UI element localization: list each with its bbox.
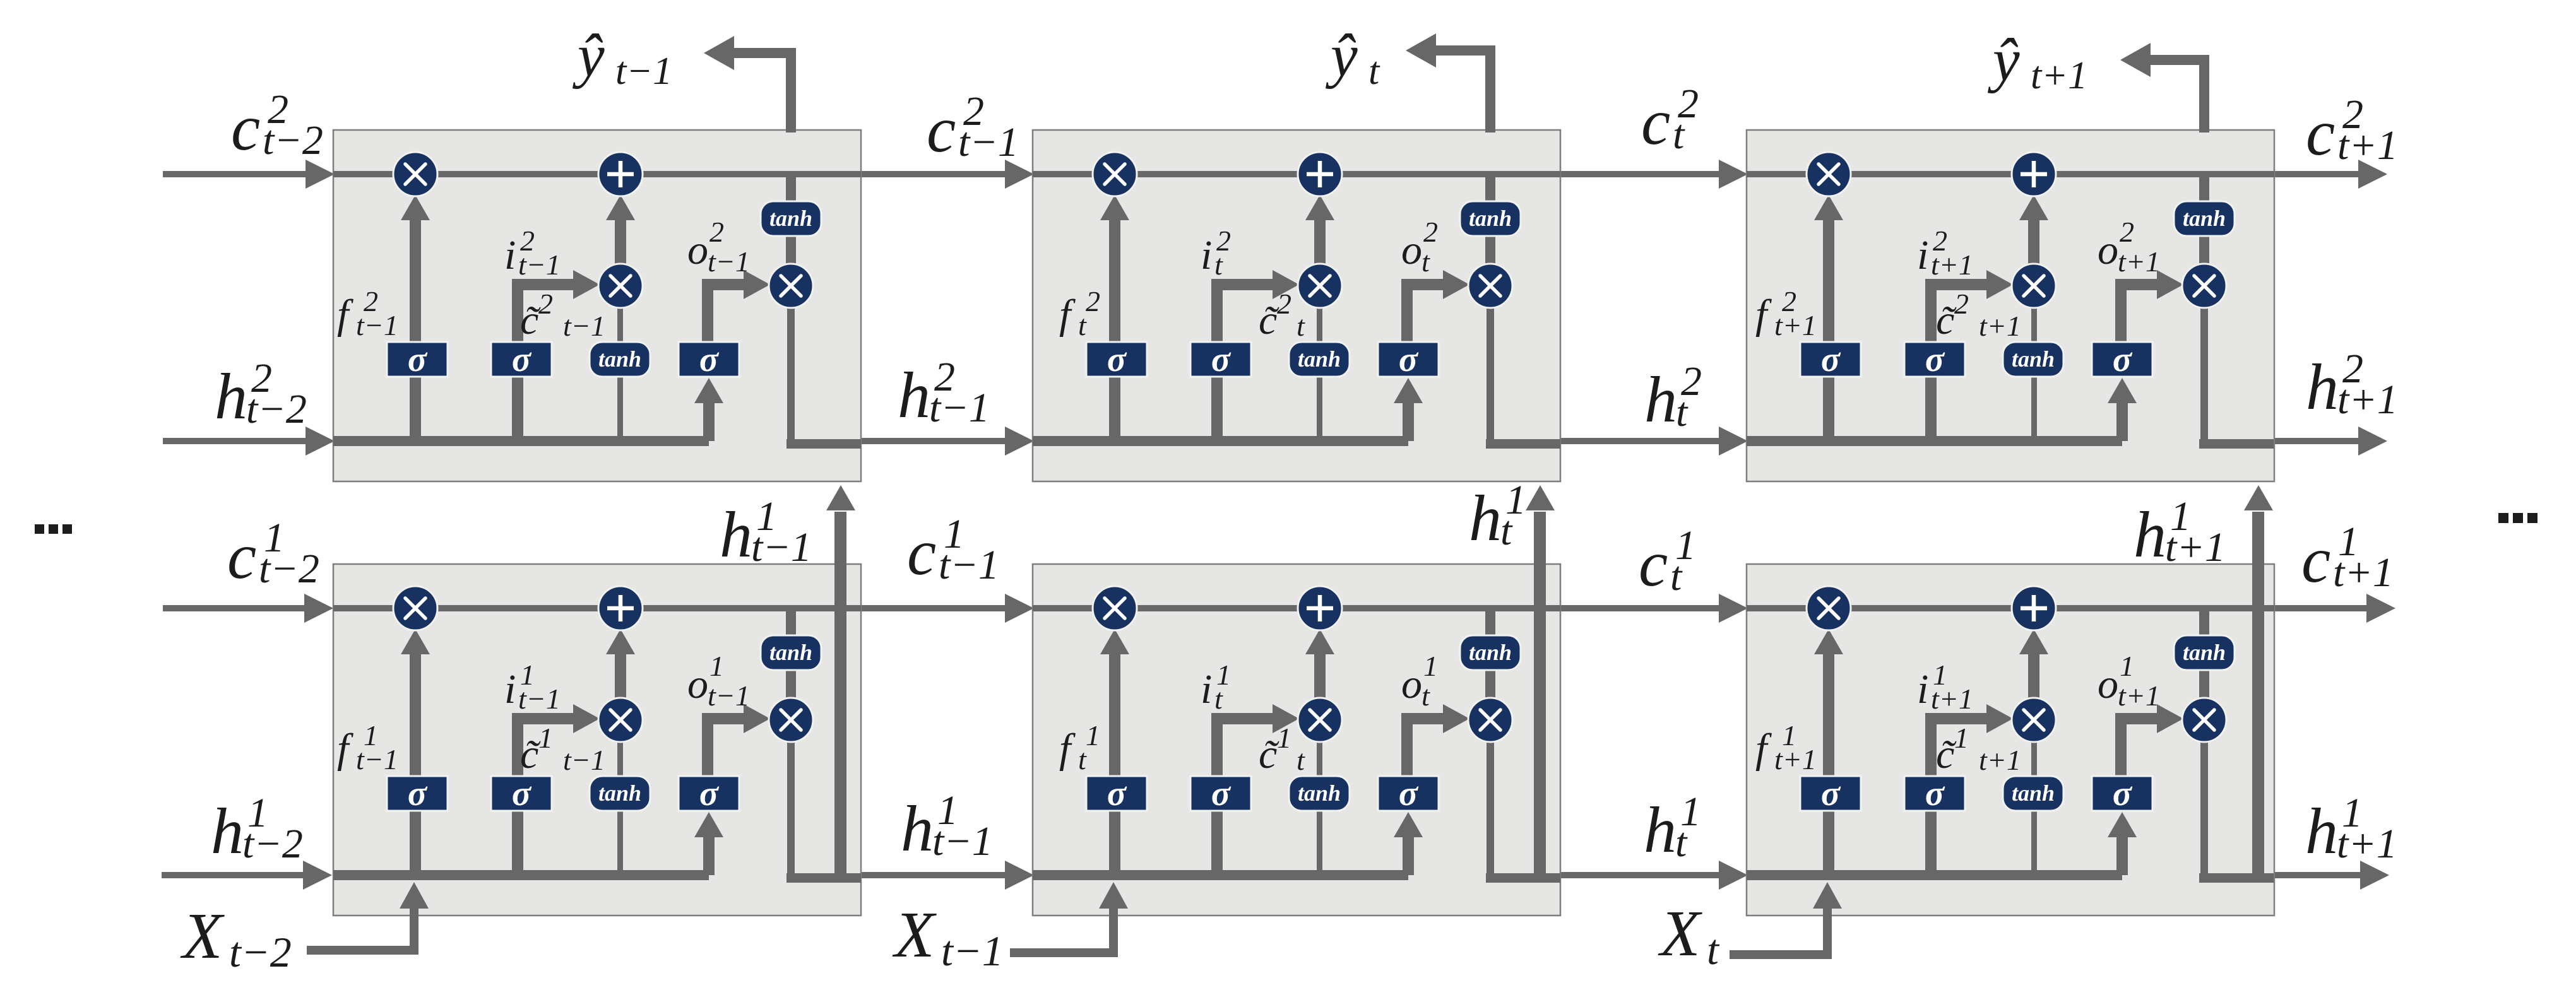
svg-text:tanh: tanh	[2012, 780, 2055, 806]
label: o gate (layer 1, step t)	[1401, 650, 1438, 712]
label: f gate (layer 1, step t)	[1059, 719, 1100, 775]
label: i gate (layer 2, step t)	[1201, 225, 1231, 281]
wire: h2 hidden arrow between cells (top row, t−1)	[860, 427, 1034, 456]
svg-text:t: t	[1500, 508, 1513, 554]
wire: hidden-state input line h (layer 2, step t+1)	[1747, 436, 2122, 446]
op: add on c line (layer 2, step t)	[1298, 152, 1342, 196]
svg-text:t+1: t+1	[2165, 524, 2226, 570]
svg-text:t: t	[1670, 553, 1683, 599]
wire: hidden-state riser h1 to layer 2 (step t+1)	[2244, 485, 2273, 878]
label: o gate (layer 1, step t−1)	[687, 650, 750, 712]
op: forget multiply on c line (layer 2, step t+1)	[1807, 152, 1851, 196]
svg-text:t−1: t−1	[563, 744, 605, 776]
wire: cell-state line c through cell (layer 1, step t−1)	[333, 605, 861, 611]
svg-text:tanh: tanh	[1298, 780, 1341, 806]
wire: c-state branch through tanh to mult3 (layer 1, step t−1)	[786, 608, 796, 700]
svg-text:σ: σ	[2113, 340, 2133, 379]
wire: output-gate input arrow from h line (layer 1, step t)	[1394, 812, 1423, 875]
label: ellipsis right	[2498, 513, 2537, 523]
op: add on c line (layer 2, step t−1)	[598, 152, 643, 196]
svg-text:t: t	[1214, 683, 1223, 715]
label: o gate (layer 2, step t+1)	[2098, 216, 2160, 278]
svg-text:tanh: tanh	[769, 206, 812, 231]
svg-text:2: 2	[2120, 216, 2134, 248]
label: h1 t (between bottom cells)	[1644, 789, 1701, 866]
label: o gate (layer 2, step t)	[1401, 216, 1438, 278]
op: input multiply (layer 2, step t+1)	[2012, 264, 2056, 308]
svg-text:tanh: tanh	[2183, 640, 2226, 665]
label: input X t-1	[892, 898, 1004, 975]
svg-text:t: t	[1675, 820, 1688, 866]
svg-text:1: 1	[1277, 722, 1291, 754]
svg-text:t−1: t−1	[939, 542, 999, 588]
label: c-tilde candidate (layer 2, step t+1)	[1936, 288, 2021, 343]
label: f gate (layer 1, step t+1)	[1755, 719, 1817, 775]
wire: output-gate input arrow from h line (layer 2, step t)	[1394, 378, 1423, 441]
svg-text:o: o	[687, 227, 708, 273]
svg-text:t−1: t−1	[518, 249, 561, 281]
gate: tanh box (candidate) (layer 2, step t+1)	[2003, 342, 2063, 377]
wire: hidden-state input line h (layer 1, step t+1)	[1747, 870, 2122, 880]
svg-text:σ: σ	[512, 774, 532, 813]
op: input multiply (layer 1, step t−1)	[598, 698, 643, 742]
gate: sigma box (forget) (layer 2, step t−1)	[387, 340, 448, 379]
svg-text:ŷ: ŷ	[1325, 21, 1358, 89]
svg-text:i: i	[504, 666, 516, 712]
wire: candidate path c-tilde through tanh (layer 2, step t−1)	[617, 305, 623, 441]
gate: tanh box (candidate) (layer 2, step t−1)	[590, 342, 650, 377]
gate: sigma box (output) (layer 2, step t−1)	[679, 340, 739, 379]
label: c-tilde candidate (layer 2, step t)	[1259, 288, 1305, 343]
wire: output-gate path o into mult3 (layer 2, step t+1)	[2115, 270, 2183, 344]
wire: output-gate input arrow from h line (layer 1, step t+1)	[2108, 812, 2137, 875]
label: y-hat t+1 output	[1987, 26, 2087, 97]
label: i gate (layer 2, step t−1)	[504, 225, 561, 281]
svg-text:σ: σ	[1211, 340, 1232, 379]
gate: sigma box (forget) (layer 2, step t+1)	[1800, 340, 1861, 379]
wire: c-state branch through tanh to mult3 (layer 1, step t)	[1485, 608, 1495, 700]
label: f gate (layer 2, step t)	[1059, 285, 1100, 341]
svg-text:σ: σ	[408, 340, 428, 379]
label: c1 t+1 (right)	[2301, 519, 2394, 596]
label: c2 t-1 (between top cells)	[927, 88, 1019, 166]
wire: candidate path c-tilde through tanh (layer 1, step t−1)	[617, 739, 623, 875]
label: f gate (layer 1, step t−1)	[337, 719, 398, 775]
LSTM cell block (layer 2, step t+1)	[1747, 130, 2274, 481]
label: h2 t (between top cells)	[1644, 358, 1702, 436]
svg-text:t+1: t+1	[2031, 54, 2087, 97]
wire: input-gate path i (layer 2, step t−1)	[512, 270, 600, 441]
svg-text:t: t	[1297, 744, 1305, 776]
gate: tanh pill on c branch (layer 2, step t−1)	[761, 201, 821, 236]
svg-text:t: t	[1214, 249, 1223, 281]
svg-text:c: c	[2306, 97, 2335, 169]
svg-text:t: t	[1422, 680, 1430, 712]
svg-text:t−1: t−1	[932, 818, 993, 864]
svg-text:t+1: t+1	[1979, 744, 2021, 776]
svg-text:σ: σ	[1107, 774, 1127, 813]
svg-text:σ: σ	[1211, 774, 1232, 813]
svg-text:t+1: t+1	[1774, 743, 1817, 775]
svg-text:c: c	[2301, 524, 2330, 596]
label: c2 t-2 (left)	[231, 86, 323, 164]
label: h1 t+1 (right)	[2305, 790, 2397, 868]
svg-text:i: i	[1917, 666, 1928, 712]
gate: tanh box (candidate) (layer 1, step t+1)	[2003, 776, 2063, 811]
gate: sigma box (forget) (layer 1, step t)	[1086, 774, 1147, 813]
wire: c2 state arrow between cells (top row, t−1)	[860, 160, 1034, 189]
wire: cell-state line c through cell (layer 1, step t+1)	[1747, 605, 2274, 611]
svg-text:t−2: t−2	[246, 386, 307, 432]
svg-text:h: h	[1644, 794, 1677, 866]
svg-text:h: h	[1644, 363, 1677, 436]
wire: h1 hidden arrow between cells (bottom row, t)	[1559, 861, 1748, 890]
svg-text:c: c	[1639, 527, 1668, 600]
svg-text:c: c	[907, 516, 936, 589]
svg-text:h: h	[898, 359, 930, 432]
label: input X t	[1658, 897, 1720, 974]
wire: cell-state line c through cell (layer 2, step t+1)	[1747, 171, 2274, 177]
wire: c-state branch through tanh to mult3 (layer 2, step t+1)	[2199, 174, 2209, 266]
LSTM cell block (layer 2, step t−1)	[333, 130, 861, 481]
svg-text:o: o	[2098, 227, 2118, 273]
svg-text:t−1: t−1	[708, 245, 750, 278]
wire: mult3 output down to h line (layer 2, step t)	[1487, 305, 1494, 444]
wire: hidden-state output segment (layer 2, step t+1)	[2199, 439, 2274, 449]
svg-text:1: 1	[1086, 719, 1100, 751]
wire: h1 hidden output arrow to the right	[2273, 861, 2389, 890]
wire: c-state branch through tanh to mult3 (layer 2, step t−1)	[786, 174, 796, 266]
svg-text:2: 2	[709, 216, 724, 248]
svg-text:tanh: tanh	[1469, 206, 1512, 231]
label: h2 t-2 (left)	[215, 355, 307, 433]
label: h1 t riser label	[1469, 477, 1526, 555]
LSTM cell block (layer 2, step t)	[1033, 130, 1560, 481]
svg-text:tanh: tanh	[598, 780, 641, 806]
svg-text:t: t	[1078, 309, 1087, 341]
gate: sigma box (output) (layer 2, step t)	[1378, 340, 1439, 379]
wire: y-hat output arrow (step t−1)	[704, 36, 796, 132]
svg-text:t+1: t+1	[2118, 680, 2160, 712]
wire: mult3 output down to h line (layer 1, step t+1)	[2200, 739, 2208, 878]
svg-text:i: i	[1201, 232, 1212, 278]
wire: hidden-state output segment (layer 1, step t−1)	[786, 873, 861, 883]
gate: sigma box (input) (layer 2, step t)	[1190, 340, 1251, 379]
svg-text:2: 2	[538, 288, 553, 320]
op: forget multiply on c line (layer 2, step t)	[1093, 152, 1137, 196]
label: o gate (layer 1, step t+1)	[2098, 650, 2160, 712]
svg-text:t−2: t−2	[263, 117, 323, 163]
label: c1 t-1 (between bottom cells)	[907, 511, 999, 589]
wire: input-gate path i (layer 1, step t+1)	[1925, 704, 2013, 875]
wire: output-gate path o into mult3 (layer 1, step t−1)	[702, 704, 770, 779]
wire: input-gate path i (layer 1, step t)	[1211, 704, 1299, 875]
svg-text:h: h	[2134, 498, 2166, 571]
wire: c1 state output arrow to the right	[2273, 594, 2395, 623]
svg-text:σ: σ	[408, 774, 428, 813]
svg-text:1: 1	[1954, 722, 1969, 754]
wire: arrow mult2 to add (layer 2, step t+1)	[2019, 195, 2048, 265]
gate: tanh pill on c branch (layer 2, step t+1)	[2174, 201, 2235, 236]
svg-text:1: 1	[1423, 650, 1438, 682]
op: output multiply (layer 1, step t−1)	[769, 698, 813, 742]
svg-text:i: i	[1201, 666, 1212, 712]
label: c-tilde candidate (layer 2, step t−1)	[520, 288, 605, 343]
wire: y-hat output arrow (step t+1)	[2120, 43, 2209, 132]
wire: hidden-state output segment (layer 1, step t+1)	[2199, 873, 2274, 883]
svg-text:σ: σ	[699, 340, 720, 379]
gate: sigma box (input) (layer 1, step t+1)	[1904, 774, 1965, 813]
svg-text:t+1: t+1	[1931, 249, 1973, 281]
op: output multiply (layer 2, step t−1)	[769, 264, 813, 308]
wire: c1 state arrow between cells (bottom row, t)	[1559, 594, 1748, 623]
gate: sigma box (input) (layer 1, step t−1)	[491, 774, 552, 813]
gate: sigma box (output) (layer 1, step t)	[1378, 774, 1439, 813]
svg-text:i: i	[1917, 232, 1928, 278]
svg-text:t−1: t−1	[563, 310, 605, 342]
wire: candidate path c-tilde through tanh (layer 2, step t+1)	[2031, 305, 2037, 441]
svg-text:t−1: t−1	[356, 743, 398, 775]
svg-text:X: X	[180, 900, 225, 972]
op: output multiply (layer 2, step t)	[1468, 264, 1512, 308]
svg-text:tanh: tanh	[1298, 346, 1341, 372]
svg-text:1: 1	[2120, 650, 2134, 682]
gate: sigma box (output) (layer 1, step t−1)	[679, 774, 739, 813]
op: forget multiply on c line (layer 1, step t+1)	[1807, 586, 1851, 630]
wire: mult3 output down to h line (layer 1, step t−1)	[787, 739, 795, 878]
wire: c-state branch through tanh to mult3 (layer 2, step t)	[1485, 174, 1495, 266]
wire: input X (step t)	[1010, 882, 1128, 957]
svg-text:t+1: t+1	[1931, 683, 1973, 715]
op: forget multiply on c line (layer 2, step t−1)	[393, 152, 437, 196]
wire: mult3 output down to h line (layer 2, step t+1)	[2200, 305, 2208, 444]
gate: tanh pill on c branch (layer 1, step t)	[1460, 635, 1521, 670]
svg-text:t−1: t−1	[615, 50, 672, 93]
wire: mult3 output down to h line (layer 2, step t−1)	[787, 305, 795, 444]
wire: cell-state line c through cell (layer 1, step t)	[1033, 605, 1560, 611]
wire: forget-gate arrow f (layer 1, step t)	[1100, 629, 1129, 875]
svg-text:c: c	[927, 93, 956, 166]
wire: arrow mult2 to add (layer 1, step t+1)	[2019, 629, 2048, 699]
svg-text:h: h	[215, 360, 247, 433]
label: input X t-2	[180, 900, 292, 976]
svg-text:t−1: t−1	[751, 524, 812, 570]
svg-text:h: h	[2305, 795, 2338, 868]
svg-text:1: 1	[709, 650, 724, 682]
wire: cell-state line c through cell (layer 2, step t−1)	[333, 171, 861, 177]
svg-text:2: 2	[1423, 216, 1438, 248]
gate: tanh box (candidate) (layer 1, step t−1)	[590, 776, 650, 811]
wire: arrow mult2 to add (layer 2, step t−1)	[606, 195, 635, 265]
wire: c1 state arrow between cells (bottom row, t−1)	[860, 594, 1034, 623]
gate: sigma box (input) (layer 2, step t+1)	[1904, 340, 1965, 379]
gate: sigma box (input) (layer 1, step t)	[1190, 774, 1251, 813]
label: h1 t-1 riser label	[720, 493, 812, 571]
wire: candidate path c-tilde through tanh (layer 2, step t)	[1317, 305, 1322, 441]
svg-text:σ: σ	[1821, 774, 1841, 813]
label: h1 t-1 (between bottom cells)	[901, 787, 993, 865]
svg-text:σ: σ	[1399, 340, 1419, 379]
svg-text:σ: σ	[2113, 774, 2133, 813]
wire: hidden-state input line h (layer 2, step t)	[1033, 436, 1408, 446]
op: input multiply (layer 1, step t+1)	[2012, 698, 2056, 742]
wire: c2 state input arrow from left	[163, 160, 335, 189]
wire: y-hat output arrow (step t)	[1406, 33, 1495, 132]
wire: output-gate path o into mult3 (layer 2, step t)	[1401, 270, 1469, 344]
svg-text:c: c	[227, 520, 256, 592]
gate: tanh box (candidate) (layer 2, step t)	[1289, 342, 1350, 377]
svg-text:t−1: t−1	[958, 119, 1019, 165]
wire: hidden-state input line h (layer 2, step t−1)	[333, 436, 709, 446]
wire: c2 state output arrow to the right	[2273, 160, 2387, 189]
wire: hidden-state output segment (layer 2, step t−1)	[786, 439, 861, 449]
svg-text:σ: σ	[699, 774, 720, 813]
LSTM cell block (layer 1, step t)	[1033, 564, 1560, 916]
wire: output-gate path o into mult3 (layer 1, step t+1)	[2115, 704, 2183, 779]
label: o gate (layer 2, step t−1)	[687, 216, 750, 278]
wire: input X (step t−1)	[307, 882, 429, 955]
wire: h2 hidden input arrow from left	[163, 427, 335, 456]
LSTM cell block (layer 1, step t+1)	[1747, 564, 2274, 916]
wire: hidden-state output segment (layer 1, step t)	[1486, 873, 1560, 883]
svg-text:t: t	[1707, 926, 1720, 974]
wire: input-gate path i (layer 2, step t)	[1211, 270, 1299, 441]
gate: sigma box (forget) (layer 2, step t)	[1086, 340, 1147, 379]
op: output multiply (layer 1, step t)	[1468, 698, 1512, 742]
svg-text:t+1: t+1	[2333, 550, 2394, 596]
wire: hidden-state input line h (layer 1, step t)	[1033, 870, 1408, 880]
svg-text:h: h	[2306, 351, 2339, 423]
svg-text:t: t	[1297, 310, 1305, 342]
svg-text:X: X	[1658, 897, 1702, 970]
svg-text:t: t	[1422, 245, 1430, 278]
gate: tanh pill on c branch (layer 1, step t−1)	[761, 635, 821, 670]
label: c-tilde candidate (layer 1, step t)	[1259, 722, 1305, 777]
svg-text:t−1: t−1	[518, 683, 561, 715]
label: h2 t-1 (between top cells)	[898, 354, 990, 432]
op: input multiply (layer 2, step t−1)	[598, 264, 643, 308]
gate: tanh pill on c branch (layer 2, step t)	[1460, 201, 1521, 236]
svg-text:t−1: t−1	[941, 927, 1004, 975]
wire: cell-state line c through cell (layer 2, step t)	[1033, 171, 1560, 177]
wire: arrow mult2 to add (layer 1, step t)	[1305, 629, 1334, 699]
wire: hidden-state input line h (layer 1, step t−1)	[333, 870, 709, 880]
wire: output-gate input arrow from h line (layer 1, step t−1)	[694, 812, 723, 875]
label: h1 t+1 riser label	[2134, 493, 2226, 571]
svg-text:σ: σ	[1399, 774, 1419, 813]
svg-text:X: X	[892, 898, 937, 971]
svg-text:t−1: t−1	[356, 309, 398, 341]
wire: mult3 output down to h line (layer 1, step t)	[1487, 739, 1494, 878]
label: ellipsis left	[35, 524, 72, 534]
svg-text:i: i	[504, 232, 516, 278]
svg-text:σ: σ	[1925, 774, 1945, 813]
svg-text:t: t	[1368, 50, 1380, 93]
svg-text:t−2: t−2	[259, 546, 319, 592]
gate: sigma box (forget) (layer 1, step t−1)	[387, 774, 448, 813]
svg-text:t+1: t+1	[1774, 309, 1817, 341]
wire: candidate path c-tilde through tanh (layer 1, step t+1)	[2031, 739, 2037, 875]
wire: hidden-state riser h1 to layer 2 (step t−1)	[826, 485, 855, 878]
wire: h1 hidden arrow between cells (bottom row, t−1)	[860, 861, 1034, 890]
wire: c1 state input arrow from left	[163, 594, 333, 623]
svg-text:h: h	[720, 498, 752, 571]
op: add on c line (layer 1, step t)	[1298, 586, 1342, 630]
svg-text:c: c	[231, 91, 260, 164]
svg-text:h: h	[901, 792, 934, 865]
svg-text:σ: σ	[1107, 340, 1127, 379]
svg-text:t+1: t+1	[2337, 377, 2398, 423]
svg-text:2: 2	[1954, 288, 1969, 320]
op: input multiply (layer 2, step t)	[1298, 264, 1342, 308]
label: c2 t+1 (right)	[2306, 91, 2398, 169]
svg-text:σ: σ	[1925, 340, 1945, 379]
svg-text:2: 2	[1277, 288, 1291, 320]
gate: sigma box (output) (layer 2, step t+1)	[2092, 340, 2152, 379]
svg-text:o: o	[687, 661, 708, 707]
wire: hidden-state output segment (layer 2, step t)	[1486, 439, 1560, 449]
label: f gate (layer 2, step t+1)	[1755, 285, 1817, 341]
svg-text:t−1: t−1	[929, 385, 990, 431]
svg-text:t−2: t−2	[242, 821, 303, 867]
svg-text:t: t	[1673, 112, 1685, 158]
gate: sigma box (output) (layer 1, step t+1)	[2092, 774, 2152, 813]
svg-text:t−1: t−1	[708, 680, 750, 712]
wire: arrow mult2 to add (layer 2, step t)	[1305, 195, 1334, 265]
op: input multiply (layer 1, step t)	[1298, 698, 1342, 742]
svg-text:c: c	[1641, 86, 1670, 158]
label: i gate (layer 2, step t+1)	[1917, 225, 1973, 281]
label: h1 t-2 (left)	[211, 790, 303, 868]
svg-text:tanh: tanh	[2183, 206, 2226, 231]
wire: output-gate input arrow from h line (layer 2, step t−1)	[694, 378, 723, 441]
wire: input X (step t+1)	[1730, 882, 1842, 959]
svg-text:t+1: t+1	[2118, 245, 2160, 278]
label: f gate (layer 2, step t−1)	[337, 285, 398, 341]
wire: h1 hidden input arrow from left	[162, 861, 332, 890]
wire: h2 hidden output arrow to the right	[2273, 427, 2387, 456]
wire: output-gate input arrow from h line (layer 2, step t+1)	[2108, 378, 2137, 441]
wire: c2 state arrow between cells (top row, t)	[1559, 160, 1748, 189]
wire: hidden-state riser h1 to layer 2 (step t)	[1526, 485, 1555, 878]
gate: tanh pill on c branch (layer 1, step t+1)	[2174, 635, 2235, 670]
wire: output-gate path o into mult3 (layer 1, step t)	[1401, 704, 1469, 779]
svg-text:1: 1	[538, 722, 553, 754]
wire: forget-gate arrow f (layer 1, step t−1)	[401, 629, 430, 875]
gate: sigma box (forget) (layer 1, step t+1)	[1800, 774, 1861, 813]
wire: candidate path c-tilde through tanh (layer 1, step t)	[1317, 739, 1322, 875]
svg-text:tanh: tanh	[769, 640, 812, 665]
svg-text:tanh: tanh	[2012, 346, 2055, 372]
wire: input-gate path i (layer 2, step t+1)	[1925, 270, 2013, 441]
svg-text:t−2: t−2	[229, 928, 292, 976]
svg-text:h: h	[1469, 482, 1502, 555]
svg-text:t+1: t+1	[1979, 310, 2021, 342]
svg-text:t: t	[1676, 389, 1689, 435]
label: i gate (layer 1, step t−1)	[504, 659, 561, 715]
svg-text:ŷ: ŷ	[1987, 26, 2020, 93]
label: y-hat t-1 output	[572, 21, 672, 93]
svg-text:t+1: t+1	[2337, 821, 2397, 867]
op: add on c line (layer 2, step t+1)	[2012, 152, 2056, 196]
label: h2 t+1 (right)	[2306, 346, 2398, 423]
wire: forget-gate arrow f (layer 2, step t+1)	[1814, 195, 1843, 441]
svg-text:tanh: tanh	[598, 346, 641, 372]
svg-text:σ: σ	[512, 340, 532, 379]
gate: sigma box (input) (layer 2, step t−1)	[491, 340, 552, 379]
op: forget multiply on c line (layer 1, step t−1)	[393, 586, 437, 630]
svg-text:ŷ: ŷ	[572, 21, 605, 89]
